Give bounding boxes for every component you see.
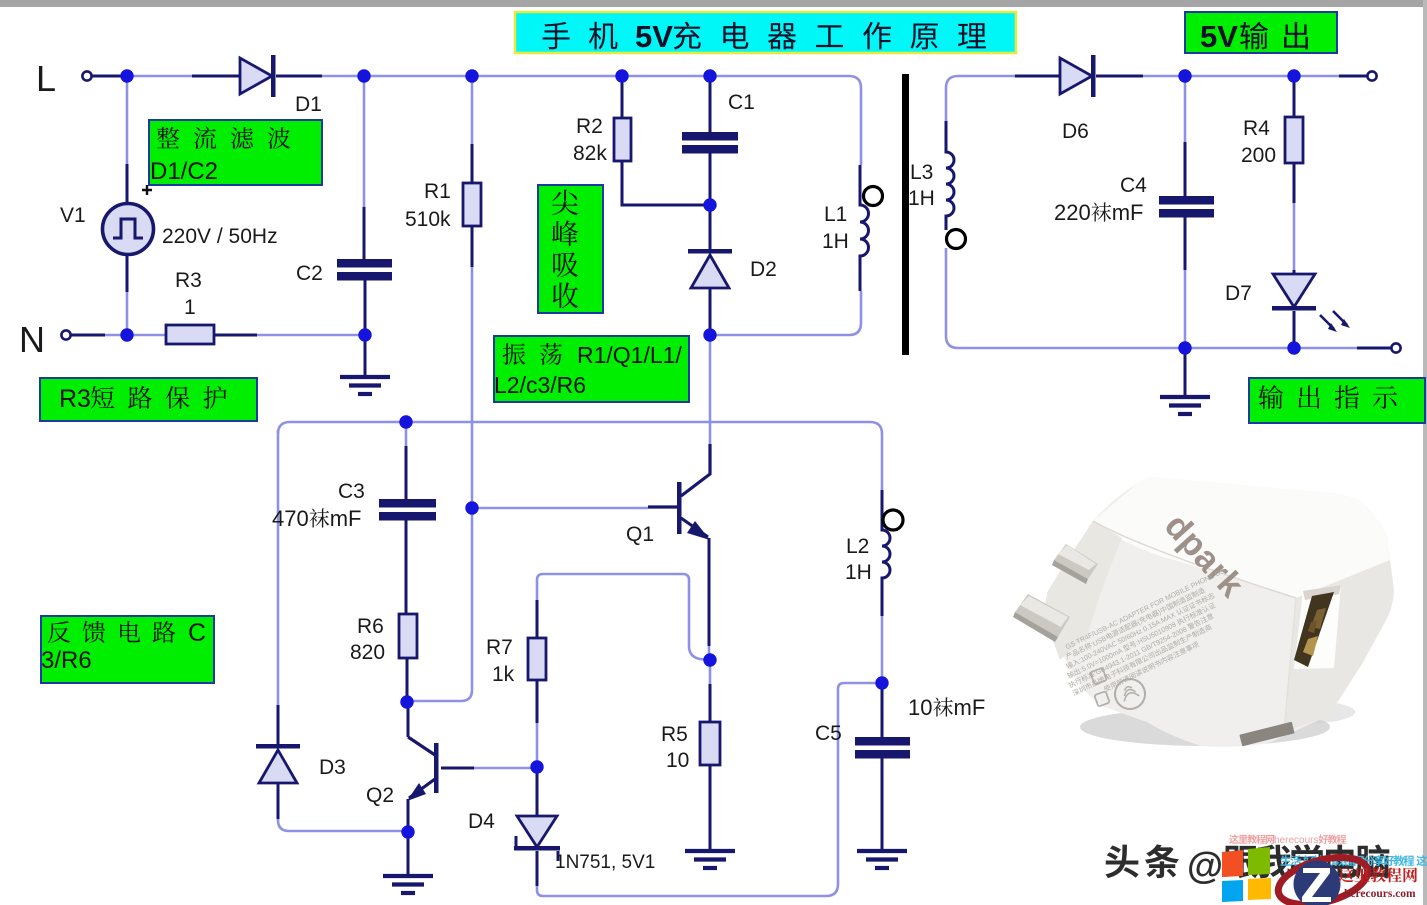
terminal L: [82, 71, 91, 80]
svg-text:1H: 1H: [822, 230, 849, 253]
ms squares logo: [1222, 847, 1271, 902]
wire: [405, 517, 408, 614]
svg-text:C2: C2: [296, 262, 323, 285]
wire: [276, 75, 322, 78]
svg-text:C5: C5: [815, 722, 842, 745]
svg-text:mF: mF: [954, 695, 986, 720]
pink small text: [1229, 834, 1346, 846]
text box fankui line2: [41, 647, 92, 674]
svg-text:L1: L1: [824, 203, 847, 226]
wire: [277, 430, 280, 705]
watermark headline: [1105, 844, 1179, 878]
svg-text:D2: D2: [750, 258, 777, 281]
terminal OUT-: [1391, 343, 1400, 352]
node J7: [703, 328, 716, 341]
text C5 value: [908, 695, 985, 720]
wire: [471, 76, 474, 144]
wire: [536, 680, 539, 723]
capacitor C4: [1159, 196, 1214, 218]
wire: [472, 507, 648, 510]
wire: [441, 767, 474, 770]
wire: [405, 446, 408, 500]
inductor L3: [946, 121, 966, 249]
svg-text:N: N: [19, 319, 45, 360]
svg-text:D4: D4: [468, 810, 495, 833]
wire: [536, 600, 539, 638]
wire: [958, 75, 1015, 78]
wire: [1184, 217, 1187, 348]
Z circle logo: [1273, 849, 1373, 905]
wire: [277, 783, 280, 819]
wire: [536, 851, 539, 886]
node J15: [875, 676, 888, 689]
text box zhendang line2: [494, 372, 586, 398]
svg-text:510k: 510k: [405, 208, 451, 231]
text box fankui line1a: [48, 621, 175, 643]
wire: [1143, 75, 1339, 78]
diode D1: [240, 55, 276, 97]
wire: [710, 76, 861, 165]
wire: [1293, 270, 1296, 275]
svg-text:D1: D1: [295, 93, 322, 116]
wire: [537, 683, 882, 896]
wire: [709, 660, 712, 684]
text box jianfeng char0: [552, 190, 578, 216]
wire: [126, 76, 129, 164]
node J12: [401, 825, 414, 838]
node J0: [120, 69, 133, 82]
node J19: [1287, 341, 1300, 354]
wire: [214, 334, 257, 337]
capacitor C1: [682, 132, 738, 154]
svg-text:C: C: [188, 619, 206, 647]
wire: [192, 75, 240, 78]
wire: [278, 818, 408, 831]
ground under C4: [1160, 397, 1210, 414]
resistor R5: [700, 722, 720, 765]
wire: [407, 799, 410, 832]
wire: [363, 76, 366, 207]
svg-text:D7: D7: [1225, 282, 1252, 305]
label box 5V out: [1185, 12, 1337, 53]
wire: [1293, 203, 1296, 273]
wire: [1184, 348, 1187, 397]
label box zhengliu: [149, 120, 322, 185]
ground under C2: [340, 377, 390, 394]
wire: [406, 658, 409, 702]
wire: [1339, 75, 1367, 78]
svg-text:D3: D3: [319, 756, 346, 779]
wire: [708, 538, 711, 646]
svg-text:1k: 1k: [492, 663, 515, 686]
svg-text:Q1: Q1: [626, 523, 654, 546]
text title part1: [543, 22, 618, 50]
terminal N: [61, 330, 70, 339]
svg-text:1: 1: [184, 296, 196, 319]
wire: [407, 702, 410, 737]
ground under C5: [857, 851, 907, 868]
diode D3: [256, 744, 300, 783]
wire: [363, 207, 366, 260]
wire: [1096, 75, 1143, 78]
svg-text:V1: V1: [60, 204, 86, 227]
svg-text:R7: R7: [486, 636, 513, 659]
svg-text:R1/Q1/L1/: R1/Q1/L1/: [577, 342, 682, 368]
wire: [364, 280, 367, 335]
wire: [322, 75, 710, 78]
node J18: [1178, 341, 1191, 354]
wire: [105, 334, 166, 337]
wire: [946, 248, 1357, 348]
text title part2: [635, 19, 673, 54]
resistor R4: [1285, 117, 1303, 163]
svg-text:470: 470: [272, 506, 309, 531]
wire: [277, 705, 280, 745]
wire: [709, 335, 712, 444]
wire: [474, 767, 537, 770]
wire: [946, 76, 958, 88]
resistor R7: [528, 638, 546, 680]
svg-text:R5: R5: [661, 723, 688, 746]
source V1: [103, 185, 154, 255]
text box shuchu: [1259, 385, 1397, 409]
ground under R5: [685, 851, 735, 868]
wire: [1184, 216, 1187, 270]
text 5V out label a: [1200, 19, 1238, 54]
svg-text:Q2: Q2: [366, 784, 394, 807]
wire: [881, 689, 884, 738]
transistor Q2: [407, 737, 439, 801]
LED D7: [1272, 274, 1350, 332]
svg-text:L2/c3/R6: L2/c3/R6: [494, 372, 586, 398]
wire: [1015, 75, 1060, 78]
wire: [536, 767, 539, 816]
wire: [881, 756, 884, 851]
wire: [709, 684, 712, 723]
svg-text:R2: R2: [576, 115, 603, 138]
text C4 value: [1054, 200, 1143, 225]
svg-text:R6: R6: [357, 615, 384, 638]
node J9: [399, 415, 412, 428]
svg-text:R4: R4: [1243, 117, 1270, 140]
diode D6: [1060, 55, 1096, 97]
text C3 value: [272, 506, 361, 531]
svg-text:82k: 82k: [573, 142, 607, 165]
wire: [881, 616, 884, 683]
wire: [407, 832, 410, 876]
resistor R3: [166, 325, 214, 344]
svg-text:R3: R3: [59, 385, 91, 413]
capacitor C5: [855, 737, 910, 759]
wire: [126, 254, 129, 292]
svg-text:mF: mF: [1112, 200, 1144, 225]
svg-text:1H: 1H: [908, 187, 935, 210]
wire: [1293, 76, 1296, 118]
wire: [537, 574, 710, 660]
wire: [278, 422, 882, 490]
wire: [536, 723, 539, 767]
label box jianfeng: [538, 185, 603, 313]
title bar: [515, 12, 1016, 53]
svg-text:220V / 50Hz: 220V / 50Hz: [162, 225, 278, 248]
node J3: [615, 69, 628, 82]
wire: [710, 291, 861, 335]
resistor R1: [463, 183, 481, 226]
site name: [1338, 867, 1417, 882]
label box zhendang: [494, 336, 689, 402]
svg-text:C4: C4: [1120, 174, 1147, 197]
svg-text:D1/C2: D1/C2: [150, 158, 218, 185]
svg-text:3/R6: 3/R6: [41, 647, 92, 674]
label box R3 duanlu: [40, 378, 257, 421]
svg-text:200: 200: [1241, 144, 1276, 167]
wire: [1184, 76, 1187, 142]
svg-text:herecours: herecours: [1274, 835, 1318, 846]
text box zhengliu line2: [150, 158, 218, 185]
node J13: [530, 760, 543, 773]
wire: [1184, 142, 1187, 197]
wire: [364, 335, 367, 377]
svg-text:mF: mF: [330, 506, 362, 531]
wire: [405, 422, 408, 446]
wire: [471, 144, 474, 184]
svg-text:herecours.com: herecours.com: [1344, 888, 1416, 900]
svg-text:C1: C1: [728, 91, 755, 114]
top frame bar: [0, 0, 1427, 7]
node J16: [1178, 69, 1191, 82]
text box R3 short b: [91, 386, 227, 409]
wire: [709, 288, 712, 335]
svg-text:L: L: [36, 58, 56, 99]
node J17: [1287, 69, 1300, 82]
text 5V out label b: [1240, 22, 1308, 50]
transformer core: [902, 74, 909, 355]
charger photo: [1013, 477, 1394, 747]
node J14: [703, 653, 716, 666]
wire: [1357, 347, 1391, 350]
text box jianfeng char2: [553, 252, 578, 277]
wire: [709, 151, 712, 205]
svg-text:C3: C3: [338, 480, 365, 503]
svg-text:10: 10: [666, 749, 689, 772]
inductor L2: [882, 490, 903, 616]
text title part3: [674, 22, 986, 50]
node J5: [120, 328, 133, 341]
text box fankui line1b: [188, 619, 206, 647]
wire: [1293, 163, 1296, 203]
wire: [709, 76, 712, 133]
capacitor C2: [337, 259, 392, 281]
right frame bar: [1423, 0, 1427, 905]
resistor R2: [614, 118, 631, 161]
text box zhengliu line1: [157, 127, 291, 149]
text box zhendang line1b: [577, 342, 682, 368]
node J6: [358, 328, 371, 341]
wire: [621, 76, 624, 118]
svg-text:L3: L3: [910, 161, 933, 184]
svg-text:@: @: [1187, 845, 1223, 886]
wire: [127, 75, 192, 78]
wire: [92, 75, 127, 78]
wire: [945, 88, 948, 121]
cyan tagline: [1280, 855, 1427, 866]
terminal OUT+: [1367, 71, 1376, 80]
svg-text:5V: 5V: [1200, 19, 1238, 54]
wire: [471, 226, 474, 267]
wire: [71, 334, 105, 337]
text box jianfeng char3: [553, 283, 579, 309]
wire: [709, 205, 712, 250]
wire: [709, 765, 712, 851]
capacitor C3: [379, 499, 436, 521]
svg-text:R1: R1: [424, 180, 451, 203]
svg-text:R3: R3: [175, 269, 202, 292]
wire: [1293, 311, 1296, 348]
svg-text:D6: D6: [1062, 120, 1089, 143]
svg-text:5V: 5V: [635, 19, 673, 54]
resistor R6: [399, 614, 417, 658]
wire: [126, 164, 129, 204]
wire: [214, 334, 365, 337]
wire: [407, 267, 472, 701]
wire: [708, 644, 711, 660]
node J1: [357, 69, 370, 82]
svg-text:820: 820: [350, 641, 385, 664]
text box jianfeng char1: [552, 221, 578, 247]
svg-text:1N751, 5V1: 1N751, 5V1: [555, 852, 655, 873]
wire: [622, 161, 710, 205]
node J11: [400, 695, 413, 708]
node J4: [703, 69, 716, 82]
label box shuchu: [1249, 378, 1425, 423]
node J2: [465, 69, 478, 82]
node J10: [465, 501, 478, 514]
ground under Q2: [383, 876, 433, 893]
label box fankui: [41, 616, 214, 683]
text box R3 short a: [59, 385, 91, 413]
inductor L1: [860, 165, 883, 291]
node J8: [703, 198, 716, 211]
svg-text:1H: 1H: [845, 561, 872, 584]
svg-text:L2: L2: [846, 535, 869, 558]
wire: [126, 292, 129, 335]
text box zhendang line1a: [503, 343, 562, 365]
zener D4: [514, 816, 560, 861]
svg-text:10: 10: [908, 695, 932, 720]
svg-text:220: 220: [1054, 200, 1091, 225]
diode D2: [688, 249, 732, 288]
transistor Q1: [648, 444, 710, 540]
